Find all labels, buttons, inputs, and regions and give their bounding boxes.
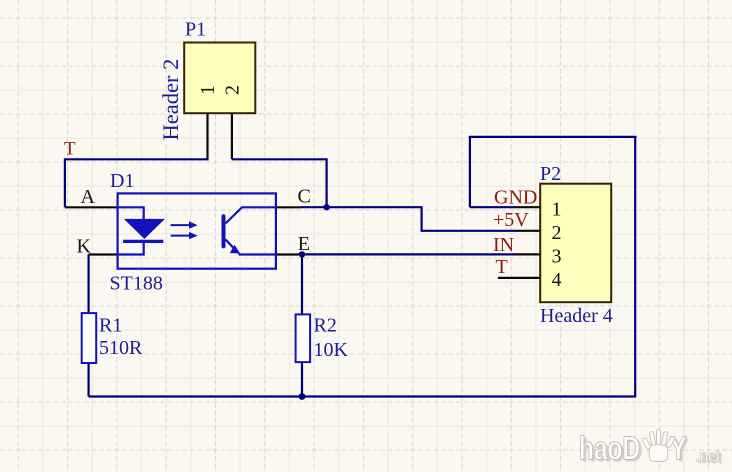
wire R1 to bottom rail xyxy=(87,363,89,397)
D1 LED cathode lead xyxy=(118,243,144,255)
wire E drop to R2 xyxy=(301,254,303,314)
svg-text:IN: IN xyxy=(493,234,514,256)
D1 light arrow upper xyxy=(171,221,198,228)
svg-text:P2: P2 xyxy=(540,163,561,185)
svg-text:Header 2: Header 2 xyxy=(158,59,183,141)
svg-text:P1: P1 xyxy=(185,19,206,41)
D1 phototransistor emitter xyxy=(226,240,276,255)
svg-text:A: A xyxy=(81,186,96,208)
resistor R1 body xyxy=(82,313,97,363)
wire net T left vertical drop xyxy=(64,158,66,207)
svg-text:Header 4: Header 4 xyxy=(540,305,613,327)
svg-text:GND: GND xyxy=(494,187,537,209)
svg-text:.net: .net xyxy=(696,449,720,466)
svg-text:ST188: ST188 xyxy=(110,273,163,295)
wire K drop to R1 xyxy=(87,254,89,313)
wire node C horizontal xyxy=(301,206,422,208)
D1 LED triangle xyxy=(125,219,164,238)
svg-text:1: 1 xyxy=(552,199,562,221)
P1 pin 2 xyxy=(231,113,233,159)
svg-text:T: T xyxy=(64,139,76,160)
D1 phototransistor collector xyxy=(226,207,276,223)
svg-text:T: T xyxy=(496,256,508,278)
wire GND horizontal to P2 pin1 xyxy=(470,206,515,208)
svg-text:haoD: haoD xyxy=(579,430,640,467)
D1 LED cathode bar xyxy=(123,240,163,243)
watermark haoDIY.net logo xyxy=(579,430,723,470)
wire P1 pin2 to node C xyxy=(232,159,327,207)
svg-text:Y: Y xyxy=(670,430,687,467)
resistor R2 body xyxy=(296,314,311,362)
P2 pin 2 xyxy=(515,230,541,232)
wire net T horizontal top-left xyxy=(65,158,209,160)
D1 pin K lead xyxy=(89,253,118,255)
wire R2 to bottom rail xyxy=(301,362,303,396)
connector P2 body xyxy=(540,184,611,303)
svg-text:R1: R1 xyxy=(99,315,122,337)
wire right vertical riser xyxy=(634,137,636,398)
svg-text:4: 4 xyxy=(552,269,562,291)
svg-text:2: 2 xyxy=(221,85,243,95)
svg-text:D1: D1 xyxy=(110,170,134,192)
svg-text:+5V: +5V xyxy=(493,209,529,231)
svg-text:3: 3 xyxy=(552,246,562,268)
wire C to P2 pin2 jog xyxy=(422,206,515,231)
D1 phototransistor base bar xyxy=(222,216,226,246)
P2 pin 4 xyxy=(498,277,540,279)
svg-text:C: C xyxy=(298,186,311,208)
junction node C xyxy=(323,204,329,210)
junction bottom rail xyxy=(299,393,306,400)
P2 pin 1 xyxy=(515,206,541,208)
connector P1 body xyxy=(184,43,255,114)
wire node E to P2 pin3 (IN net) xyxy=(299,253,515,255)
D1 LED anode lead xyxy=(118,207,144,220)
junction node E xyxy=(299,251,305,257)
svg-text:10K: 10K xyxy=(314,339,349,361)
svg-text:E: E xyxy=(298,233,310,255)
D1 light arrow lower xyxy=(171,232,198,239)
svg-text:R2: R2 xyxy=(314,315,337,337)
optocoupler U/D1 body box xyxy=(118,193,276,268)
svg-text:2: 2 xyxy=(552,222,562,244)
svg-text:1: 1 xyxy=(197,85,219,95)
D1 pin A lead xyxy=(65,206,118,208)
D1 pin E lead xyxy=(276,253,299,255)
P2 pin 3 xyxy=(515,253,541,255)
D1 pin C lead xyxy=(276,206,301,208)
P1 pin 1 xyxy=(206,113,208,159)
svg-text:510R: 510R xyxy=(99,337,143,359)
wire top loop horizontal xyxy=(470,136,637,138)
wire bottom rail xyxy=(89,395,636,397)
wire GND vertical drop xyxy=(469,136,471,207)
svg-text:K: K xyxy=(77,236,92,258)
